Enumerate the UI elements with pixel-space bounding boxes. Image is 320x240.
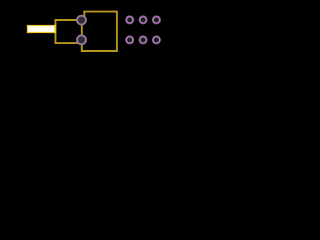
wire: pin-to-pin vertical segment (81, 20, 83, 40)
hole H2 (header socket row1 col2) (139, 16, 147, 24)
pin P1 (top pad) (77, 16, 86, 25)
wire W1: cream core fill (28, 26, 54, 32)
background (0, 0, 174, 63)
pin P2 (bottom pad) (77, 35, 86, 44)
hole H6 (header socket row2 col3) (153, 36, 161, 44)
wire: bottom ratsnest segment from junction to bottom pin (55, 42, 81, 44)
hole H3 (header socket row1 col3) (153, 16, 161, 24)
hole H1 (header socket row1 col1) (126, 16, 134, 24)
hole H4 (header socket row2 col1) (126, 36, 134, 44)
wire: outer loop from top pin around right side to bottom pin (82, 12, 117, 51)
hole H5 (header socket row2 col2) (139, 36, 147, 44)
wire: top ratsnest segment from junction to top pin (55, 19, 81, 21)
wire W1: thick selected wire (yellow highlight outline) (27, 25, 56, 33)
wire: left vertical junction segment (54, 19, 56, 44)
